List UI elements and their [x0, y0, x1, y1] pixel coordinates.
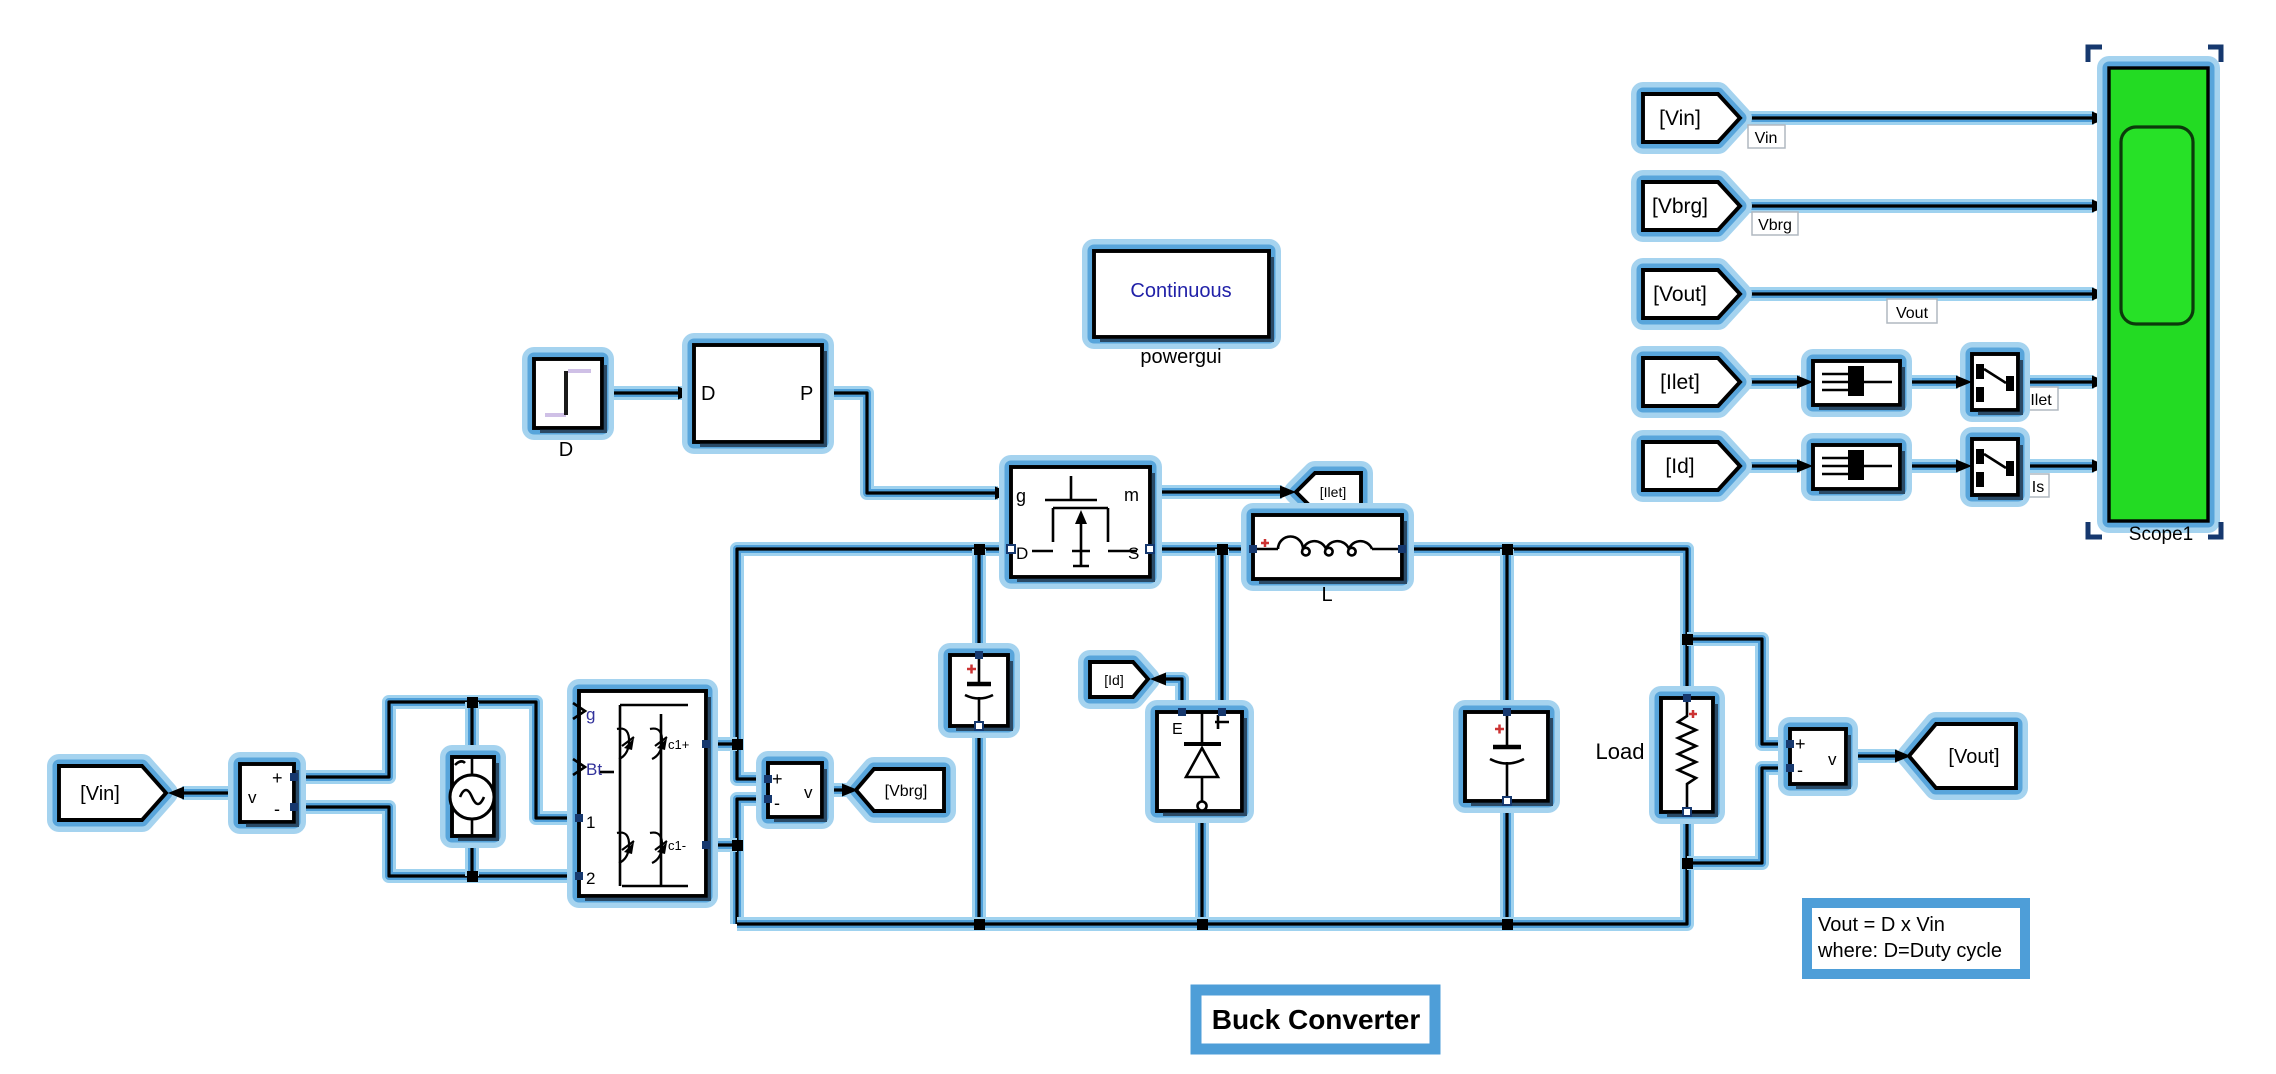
wire MOSFET m to Goto[Ilet]: [1150, 485, 1282, 499]
svg-text:D: D: [1016, 544, 1028, 563]
junction node C1 top: [974, 544, 985, 555]
wire V1 + to top net and bridge port 1: [294, 702, 579, 818]
wire bridge c1+ to node and MOSFET D (net with V2 +): [737, 549, 1011, 779]
wire From[Id] to Mean2: [1740, 459, 1800, 473]
Goto tag [Ilet]: [1296, 473, 1361, 511]
svg-text:D: D: [559, 439, 573, 461]
svg-text:Vout = D x Vin: Vout = D x Vin: [1818, 914, 1945, 936]
svg-text:[Vin]: [Vin]: [1659, 107, 1701, 130]
universal bridge block: [573, 691, 710, 899]
MOSFET block: [1007, 467, 1154, 580]
junction node AC top: [467, 697, 478, 708]
arrow into Scope row2: [2092, 200, 2108, 213]
wire diode cathode bottom to rail: [1195, 811, 1209, 924]
wire load bottom node to V3 -: [1687, 768, 1790, 863]
arrow into Switch1: [1956, 376, 1972, 389]
svg-text:Vout: Vout: [1896, 305, 1929, 322]
arrow into Switch2: [1956, 460, 1972, 473]
voltage measurement V2: [764, 763, 825, 820]
wire node to diode anode drop: [1215, 549, 1229, 712]
capacitor C1: [950, 651, 1011, 730]
Goto tag [Vin] (bottom left): [59, 766, 166, 820]
arrow into Goto[Vin]: [168, 787, 184, 800]
svg-text:g: g: [586, 705, 595, 724]
signal label Ilet: [2024, 387, 2058, 410]
title Buck Converter: [1196, 990, 1435, 1049]
wire Step D to Subsystem input: [602, 386, 682, 400]
junction node c1+: [732, 739, 743, 750]
svg-text:g: g: [1016, 486, 1026, 506]
Mean block 2: [1813, 445, 1903, 492]
svg-text:+: +: [1795, 734, 1806, 754]
svg-text:[Vbrg]: [Vbrg]: [1652, 195, 1708, 218]
svg-text:[Ilet]: [Ilet]: [1660, 371, 1700, 394]
svg-text:2: 2: [586, 869, 595, 888]
arrow into Mean1: [1797, 376, 1813, 389]
arrow into Mean2: [1797, 460, 1813, 473]
Mean block 1: [1813, 361, 1903, 408]
wire bridge c1- to node and V2 - and ground rail: [737, 799, 768, 924]
From tag [Vin] (row 1): [1643, 94, 1740, 142]
svg-text:[Vout]: [Vout]: [1948, 746, 1999, 768]
junction node load bottom: [1682, 858, 1693, 869]
signal label Is: [2027, 474, 2049, 497]
svg-text:[Ilet]: [Ilet]: [1320, 484, 1346, 500]
svg-text:Vbrg: Vbrg: [1758, 217, 1792, 234]
wire bridge c1- stub: [706, 838, 737, 852]
wire From[Vbrg] to Scope1 (signal Vbrg): [1740, 199, 2094, 213]
svg-text:c1+: c1+: [668, 737, 689, 752]
svg-text:powergui: powergui: [1140, 346, 1221, 368]
From tag [Ilet] (row 4): [1643, 358, 1740, 406]
svg-text:D: D: [701, 383, 715, 405]
arrow into Subsystem D: [678, 387, 694, 400]
arrow into Goto[Ilet]: [1280, 486, 1296, 499]
svg-text:Ilet: Ilet: [2030, 392, 2052, 409]
powergui block (Continuous): [1094, 251, 1272, 368]
svg-text:E: E: [1172, 721, 1183, 738]
wire bridge c1+ stub: [706, 737, 737, 751]
svg-text:where: D=Duty cycle: where: D=Duty cycle: [1817, 940, 2002, 962]
svg-text:[Id]: [Id]: [1104, 672, 1123, 688]
wire V1 output to Goto[Vin]: [182, 786, 240, 800]
wire Subsystem P to MOSFET gate g: [822, 393, 998, 493]
Subsystem block (D to P): [694, 345, 825, 445]
wire AC source bottom stub: [465, 836, 479, 876]
junction node C2 top: [1502, 544, 1513, 555]
diode block: [1157, 708, 1245, 814]
junction node rail C2: [1502, 919, 1513, 930]
Goto tag [Vbrg]: [856, 769, 944, 811]
svg-text:c1-: c1-: [668, 838, 686, 853]
wire From[Ilet] to Mean1: [1740, 375, 1800, 389]
signal label Vbrg: [1752, 212, 1798, 235]
wire MOSFET S to inductor L: [1150, 542, 1253, 556]
wire Switch1 to Scope1 (signal Ilet): [2018, 375, 2094, 389]
junction node diode top: [1217, 544, 1228, 555]
wire inductor L output to load node: [1402, 549, 1687, 696]
wire From[Vin] to Scope1 (signal Vin): [1740, 111, 2094, 125]
svg-text:Bt: Bt: [586, 760, 602, 779]
AC voltage source: [450, 757, 497, 839]
Goto tag [Vout]: [1909, 724, 2016, 788]
wire From[Vout] to Scope1 (signal Vout): [1740, 287, 2094, 301]
svg-text:v: v: [248, 788, 257, 807]
wire capacitor C1 bottom to rail: [972, 727, 986, 924]
signal label Vout: [1887, 299, 1937, 323]
wire capacitor C2 top drop: [1500, 549, 1514, 710]
arrow into Scope row1: [2092, 112, 2108, 125]
svg-text:S: S: [1128, 544, 1139, 563]
arrow into Goto[Id]: [1150, 673, 1166, 686]
arrow into Scope row3: [2092, 288, 2108, 301]
load resistor: [1661, 694, 1716, 816]
svg-text:m: m: [1124, 485, 1139, 505]
svg-text:+: +: [772, 769, 783, 789]
arrow into MOSFET g: [995, 487, 1011, 500]
svg-text:Continuous: Continuous: [1130, 280, 1231, 302]
voltage measurement V1: [240, 764, 298, 825]
arrow into Scope row4: [2092, 376, 2108, 389]
svg-text:[Id]: [Id]: [1665, 455, 1694, 478]
junction node load top: [1682, 634, 1693, 645]
arrow into Goto[Vout]: [1895, 750, 1911, 763]
wire Mean1 to Switch1: [1900, 375, 1958, 389]
From tag [Id] (row 5): [1643, 442, 1740, 490]
wire V3 output to Goto[Vout]: [1846, 749, 1897, 763]
From tag [Vbrg] (row 2): [1643, 182, 1740, 230]
svg-text:Scope1: Scope1: [2129, 524, 2193, 545]
junction node AC bottom: [467, 871, 478, 882]
svg-text:+: +: [272, 768, 283, 788]
Scope1 block: [2109, 68, 2208, 545]
junction node c1-: [732, 840, 743, 851]
wire capacitor C1 top drop: [972, 549, 986, 653]
inductor L: [1249, 515, 1406, 606]
svg-text:Load: Load: [1596, 739, 1645, 764]
Manual switch 2: [1972, 439, 2021, 498]
junction node rail C1: [974, 919, 985, 930]
Manual switch 1: [1972, 354, 2021, 413]
svg-text:Vin: Vin: [1755, 130, 1778, 147]
svg-text:-: -: [274, 799, 280, 819]
wire Mean2 to Switch2: [1900, 459, 1958, 473]
svg-text:v: v: [1828, 750, 1837, 769]
junction node rail diode: [1197, 919, 1208, 930]
arrow into Goto[Vbrg]: [842, 784, 858, 797]
wire V1 - to bottom net and bridge port 2: [294, 807, 579, 876]
wire Diode measurement to Goto[Id]: [1166, 679, 1182, 712]
wire V2 output to Goto[Vbrg]: [822, 783, 846, 797]
wire load top node to V3 +: [1687, 639, 1790, 744]
voltage measurement V3: [1786, 729, 1849, 787]
wire Switch2 to Scope1 (signal Is): [2018, 459, 2094, 473]
svg-text:-: -: [1797, 760, 1803, 780]
annotation Vout equation: [1807, 903, 2025, 974]
capacitor C2: [1465, 708, 1551, 805]
svg-text:Buck Converter: Buck Converter: [1212, 1004, 1421, 1035]
signal label Vin: [1748, 125, 1785, 148]
svg-text:Is: Is: [2032, 479, 2044, 496]
svg-text:L: L: [1321, 584, 1332, 606]
svg-text:[Vbrg]: [Vbrg]: [885, 783, 928, 800]
Scope1 selection corner markers: [2088, 47, 2221, 537]
Step block D: [534, 359, 605, 461]
arrow into Scope row5: [2092, 460, 2108, 473]
wire capacitor C2 bottom to rail: [1500, 803, 1514, 924]
From tag [Vout] (row 3): [1643, 270, 1740, 318]
svg-text:v: v: [804, 783, 813, 802]
svg-text:-: -: [774, 793, 780, 813]
wire load bottom to ground rail: [737, 814, 1687, 924]
svg-text:[Vin]: [Vin]: [80, 783, 120, 805]
svg-text:1: 1: [586, 813, 595, 832]
Goto tag [Id]: [1090, 662, 1148, 697]
svg-text:P: P: [800, 383, 813, 405]
wire AC source top stub: [465, 702, 479, 757]
svg-text:[Vout]: [Vout]: [1653, 283, 1707, 306]
